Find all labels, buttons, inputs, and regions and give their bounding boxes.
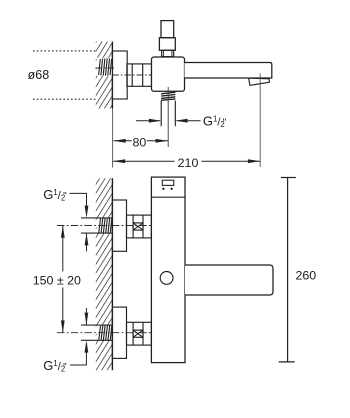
upper G1/2 leader (70, 193, 87, 210)
lower valve X-box (133, 330, 143, 337)
dimension 210 (113, 160, 260, 162)
lower supply stub (81, 324, 112, 326)
dimension 150 ± 20 (62, 226, 64, 333)
lower check valve assembly (127, 322, 152, 345)
dimension 260 (287, 178, 289, 362)
svg-text:260: 260 (296, 268, 317, 282)
upper nipple threads (99, 218, 112, 233)
spout (side view) (185, 63, 272, 79)
stem neck flats (162, 50, 164, 56)
lower escutcheon (front view) (112, 307, 126, 358)
svg-text:80: 80 (133, 135, 147, 149)
stem neck (162, 50, 174, 56)
aerator centerline tick + 210 extension line (259, 74, 261, 168)
connector divider 2 (142, 64, 144, 86)
tailpiece threads (161, 92, 175, 100)
display window (162, 180, 174, 185)
nipple knockout in wall (side view) (97, 58, 113, 76)
upper check valve assembly (127, 215, 152, 238)
svg-text:210: 210 (178, 156, 199, 170)
spout (front view) (185, 265, 273, 295)
lower inlet centerline (57, 332, 158, 334)
cap separator line (151, 196, 185, 198)
mixer body (front view) (151, 177, 185, 363)
inlet pipe (side view) (160, 101, 162, 127)
upper escutcheon (front view) (112, 200, 126, 251)
pipe centerline / 80 extension (167, 87, 169, 147)
svg-text:G1/2": G1/2" (43, 358, 67, 374)
supply nipple threads (side view) (99, 58, 112, 75)
upper inlet centerline (57, 225, 158, 227)
handle knob (160, 272, 173, 285)
union connector (side view) (127, 64, 152, 86)
dashed line ø68 top extent (33, 50, 96, 52)
dimension 80 (113, 140, 167, 142)
svg-text:G1/2": G1/2" (203, 114, 227, 130)
svg-text:ø68: ø68 (28, 68, 50, 82)
stem adapter block (159, 38, 175, 51)
wall face line (front view) (111, 178, 113, 370)
wall face extension line (down to dims) (112, 109, 114, 168)
lower nipple threads (99, 326, 112, 341)
G1/2 dimension arrows (top view) (136, 120, 201, 122)
connector divider 1 (131, 64, 133, 86)
nipple knockouts in wall (97, 218, 113, 232)
nipple centerline (dash-dot) (96, 67, 116, 69)
upper supply stub (81, 217, 112, 219)
wall face line (side view) (111, 42, 113, 109)
faucet axis centerline (dash-dot) (112, 74, 156, 76)
mixer body (side view) (152, 57, 185, 91)
lower G1/2 leader (70, 348, 86, 365)
upper valve X-box (133, 223, 143, 230)
indicator dots (162, 188, 164, 190)
escutcheon flange (side view) (112, 51, 127, 99)
wall section (front view) (96, 178, 113, 370)
dashed line ø68 bottom extent (33, 98, 96, 100)
svg-text:G1/2": G1/2" (43, 187, 67, 203)
aerator tip (249, 78, 270, 85)
wall section (side view) (96, 42, 113, 109)
cartridge stem top (161, 21, 174, 38)
svg-text:150 ± 20: 150 ± 20 (33, 273, 81, 287)
